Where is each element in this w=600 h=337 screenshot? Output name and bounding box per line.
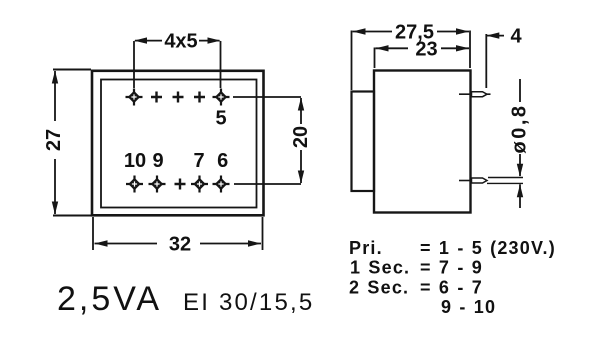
dimension 27 extension line bottom — [53, 215, 91, 217]
transformer body outline (side view) — [374, 71, 471, 213]
svg-text:2 Sec.: 2 Sec. — [349, 277, 409, 297]
pin 2 — [151, 92, 162, 103]
svg-text:ø0,8: ø0,8 — [509, 103, 531, 153]
dimension 0,8 line upper — [519, 79, 521, 176]
dimension 32 arrow right — [248, 240, 261, 246]
svg-text:6: 6 — [217, 150, 228, 172]
dimension 20 leader from pin 5 — [233, 96, 301, 98]
dimension 32 extension line right — [262, 217, 264, 250]
pin 1 — [126, 89, 143, 106]
svg-text:4: 4 — [510, 26, 522, 48]
dimension 27 arrow up — [52, 71, 58, 84]
dimension 20 arrow up — [298, 98, 304, 111]
pin 4 — [194, 92, 205, 103]
dimension 23 line — [376, 47, 470, 49]
svg-text:Pri.: Pri. — [349, 238, 383, 258]
dimension 27,5 extension line left — [351, 31, 353, 91]
dimension 4 line — [486, 35, 504, 37]
mounting flange outline (side view) — [352, 92, 375, 192]
svg-text:10: 10 — [124, 150, 146, 172]
svg-text:27: 27 — [43, 129, 65, 151]
dimension 27,5 line — [353, 31, 470, 33]
dimension 4x5 arrow right — [208, 37, 221, 43]
dimension 27 line — [54, 71, 56, 214]
dimension 4 arrow — [486, 32, 499, 38]
dimension 32 extension line left — [92, 217, 94, 250]
svg-text:4x5: 4x5 — [164, 31, 197, 53]
pin diameter extension line top — [488, 177, 523, 179]
dimension 27,5 extension line right — [469, 31, 471, 69]
dimension 0,8 arrow down — [517, 164, 523, 177]
svg-text:2,5VA: 2,5VA — [57, 280, 162, 318]
svg-text:32: 32 — [169, 234, 191, 256]
pin 7 — [191, 176, 208, 193]
dimension 27 arrow down — [52, 202, 58, 215]
pin 5 — [213, 89, 230, 106]
lower pin body (side view) — [472, 178, 488, 183]
upper pin lead (side view) — [459, 93, 491, 95]
svg-text:9: 9 — [152, 150, 163, 172]
lower pin lead (side view) — [459, 180, 472, 182]
pin 6 — [213, 176, 230, 193]
pin 3 — [173, 92, 184, 103]
dimension 23 arrow right — [456, 45, 469, 51]
svg-text:23: 23 — [415, 39, 437, 61]
svg-text:= 7 - 9: = 7 - 9 — [420, 258, 483, 278]
dimension 27,5 arrow right — [456, 28, 469, 34]
dimension 27 extension line top — [53, 69, 91, 71]
svg-text:9 - 10: 9 - 10 — [441, 297, 496, 317]
dimension 20 line — [300, 98, 302, 183]
svg-text:= 1 - 5 (230V.): = 1 - 5 (230V.) — [420, 238, 556, 258]
dimension 32 line — [95, 243, 262, 245]
dimension 4 extension line — [485, 34, 487, 88]
pin diameter extension line bottom — [487, 182, 523, 184]
svg-text:EI 30/15,5: EI 30/15,5 — [183, 289, 314, 316]
dimension 4x5 line — [135, 40, 220, 42]
dimension 23 extension line — [374, 48, 376, 69]
dimension 20 arrow down — [298, 171, 304, 184]
dimension 0,8 line lower — [519, 184, 521, 208]
upper pin body (side view) — [472, 92, 488, 97]
transformer case outer outline (top view) — [92, 71, 264, 216]
dimension 4x5 arrow left — [134, 37, 147, 43]
svg-text:20: 20 — [290, 126, 312, 148]
svg-text:1 Sec.: 1 Sec. — [350, 258, 410, 278]
dimension 20 leader from pin 6 — [234, 183, 301, 185]
pin 10 — [126, 176, 143, 193]
dimension 32 arrow left — [95, 240, 108, 246]
transformer case inner outline (top view) — [101, 80, 257, 208]
svg-text:7: 7 — [193, 150, 204, 172]
dimension 23 arrow left — [376, 45, 389, 51]
dimension 4x5 extension line left — [133, 41, 135, 88]
dimension 0,8 arrow up — [517, 184, 523, 197]
pin 9 — [149, 176, 166, 193]
pin 8 cross — [175, 179, 186, 190]
svg-text:= 6 - 7: = 6 - 7 — [420, 277, 483, 297]
dimension 27,5 arrow left — [353, 28, 366, 34]
svg-text:5: 5 — [215, 108, 226, 130]
dimension 4x5 extension line right — [220, 41, 222, 88]
